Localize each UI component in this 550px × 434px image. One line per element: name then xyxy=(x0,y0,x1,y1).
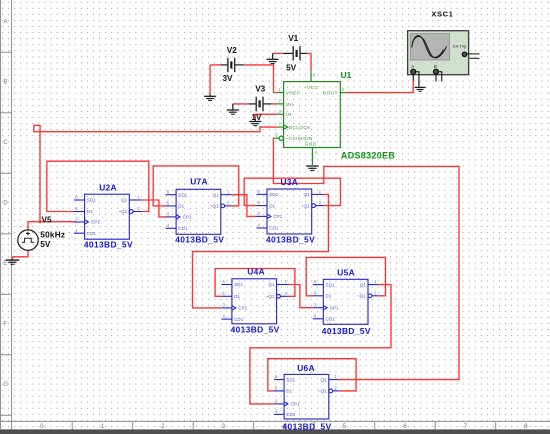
svg-text:6: 6 xyxy=(403,423,407,430)
svg-text:5V: 5V xyxy=(286,64,297,73)
svg-text:SD1: SD1 xyxy=(178,192,187,197)
svg-text:~Q1: ~Q1 xyxy=(357,294,366,299)
pin IN+ 2 xyxy=(278,103,284,105)
pin VREF 1 xyxy=(278,92,284,94)
wire: U2A feedback loop ~Q1 to D1 xyxy=(47,161,149,211)
svg-text:D1: D1 xyxy=(178,204,184,209)
op-amp U1 ADC ADS8320EB xyxy=(274,70,395,165)
wire: V5 to ground xyxy=(13,250,29,259)
svg-text:V1: V1 xyxy=(288,34,298,43)
svg-text:4013BD_5V: 4013BD_5V xyxy=(84,239,133,249)
wire: U5A feedback loop ~Q1 to D1 xyxy=(306,257,385,295)
svg-text:2: 2 xyxy=(161,423,165,430)
svg-text:Ext Trig: Ext Trig xyxy=(453,43,466,48)
svg-text:CP1: CP1 xyxy=(291,402,300,407)
svg-text:V5: V5 xyxy=(42,215,52,224)
bottom ruler numbers xyxy=(40,423,528,430)
flip-flop U6A xyxy=(274,363,339,431)
wire: U1 IN- to ground under 1V xyxy=(255,114,277,119)
svg-text:SD1: SD1 xyxy=(269,192,278,197)
svg-text:U7A: U7A xyxy=(190,177,208,187)
oscilloscope XSC1 xyxy=(408,9,480,87)
pin DOUT 6 xyxy=(340,92,345,94)
pin DCLOCK 7 xyxy=(278,126,284,128)
left ruler letters xyxy=(3,20,8,389)
battery V3 1V xyxy=(249,84,272,111)
svg-text:3V: 3V xyxy=(223,74,234,83)
flip-flop U5A xyxy=(313,268,378,336)
svg-text:7: 7 xyxy=(464,423,468,430)
battery V2 3V xyxy=(221,46,243,83)
flip-flop U3A xyxy=(257,177,324,244)
wire: V5 clock bus to U2A CP1 xyxy=(28,222,74,230)
svg-text:8: 8 xyxy=(524,423,528,430)
ground (U1 IN- tie) xyxy=(249,119,261,126)
svg-text:CD1: CD1 xyxy=(326,317,336,322)
svg-text:CD1: CD1 xyxy=(87,231,97,236)
wire: U3A feedback loop ~Q1 to D1 xyxy=(244,178,340,205)
svg-text:U2A: U2A xyxy=(99,183,117,193)
svg-text:A: A xyxy=(411,64,414,69)
screen waveforms xyxy=(412,36,444,58)
svg-text:0: 0 xyxy=(40,423,44,430)
svg-text:Q1: Q1 xyxy=(303,192,310,197)
svg-text:CP1: CP1 xyxy=(91,220,100,225)
svg-text:B: B xyxy=(434,64,437,69)
ground (V1 minus) xyxy=(267,53,279,63)
svg-text:Q1: Q1 xyxy=(213,192,220,197)
svg-text:5: 5 xyxy=(343,423,347,430)
svg-text:U3A: U3A xyxy=(281,177,299,187)
svg-text:IN+: IN+ xyxy=(286,102,295,108)
svg-text:D1: D1 xyxy=(326,294,332,299)
svg-text:A: A xyxy=(3,20,7,26)
wire: U7A Q1 to U3A CP1 xyxy=(231,195,256,217)
svg-text:~Q1: ~Q1 xyxy=(210,204,219,209)
svg-text:CD1: CD1 xyxy=(286,412,296,417)
svg-text:D1: D1 xyxy=(286,389,292,394)
flip-flop U7A xyxy=(166,177,232,245)
pin GND 4 xyxy=(311,148,313,166)
svg-text:~Q1: ~Q1 xyxy=(266,294,275,299)
svg-text:DOUT: DOUT xyxy=(323,90,338,96)
wire: clock bus riser to DCLOCK rail xyxy=(40,127,278,222)
wire: V2 ground drop xyxy=(209,65,211,94)
svg-text:5V: 5V xyxy=(40,240,51,249)
svg-text:SD1: SD1 xyxy=(87,198,96,203)
wire: U7A feedback loop ~Q1 to D1 xyxy=(153,166,239,206)
wire: U1 DOUT to scope channel A xyxy=(345,81,413,93)
svg-text:V3: V3 xyxy=(255,84,265,93)
svg-text:XSC1: XSC1 xyxy=(431,9,453,18)
wire: U4A feedback loop ~Q1 to D1 xyxy=(215,269,295,297)
svg-text:C: C xyxy=(3,140,8,146)
svg-text:D: D xyxy=(3,201,8,207)
svg-text:ADS8320EB: ADS8320EB xyxy=(341,151,395,161)
svg-text:4013BD_5V: 4013BD_5V xyxy=(283,421,332,431)
svg-text:F: F xyxy=(3,322,7,328)
svg-text:1: 1 xyxy=(101,423,105,430)
svg-text:CP1: CP1 xyxy=(330,305,339,310)
svg-text:CP1: CP1 xyxy=(273,214,282,219)
ground (V3 minus) xyxy=(227,104,239,114)
svg-text:Q1: Q1 xyxy=(360,282,367,287)
svg-text:CD1: CD1 xyxy=(234,317,244,322)
svg-text:4013BD_5V: 4013BD_5V xyxy=(266,234,315,244)
svg-text:U5A: U5A xyxy=(337,268,355,278)
pin IN- 3 xyxy=(278,113,284,115)
ground (scope A minus) xyxy=(415,87,426,91)
svg-text:U4A: U4A xyxy=(247,267,265,277)
svg-text:~CS/SHDN: ~CS/SHDN xyxy=(285,136,312,142)
ground (V5 minus) xyxy=(6,259,20,264)
node: junction V5/bus xyxy=(39,220,42,223)
svg-text:G: G xyxy=(3,382,8,388)
svg-text:50kHz: 50kHz xyxy=(40,231,65,240)
bottom window bar xyxy=(0,429,550,434)
svg-text:SD1: SD1 xyxy=(326,282,335,287)
svg-text:4013BD_5V: 4013BD_5V xyxy=(175,235,224,245)
svg-text:Q1: Q1 xyxy=(268,282,275,287)
node: bus end square marker xyxy=(34,125,40,131)
svg-text:VREF: VREF xyxy=(286,90,300,96)
svg-text:B: B xyxy=(3,80,7,86)
svg-text:CD1: CD1 xyxy=(178,226,188,231)
svg-text:GND: GND xyxy=(305,142,317,148)
svg-text:DCLOCK: DCLOCK xyxy=(289,125,312,131)
svg-text:SD1: SD1 xyxy=(234,282,243,287)
svg-text:~Q1: ~Q1 xyxy=(318,389,327,394)
wire: U2A Q1 to U7A CP1 xyxy=(142,200,166,217)
svg-text:D1: D1 xyxy=(87,209,93,214)
sheet border: left ruler strip xyxy=(0,0,12,429)
wire: V2 minus to ground xyxy=(210,64,221,66)
flip-flop U4A xyxy=(221,267,288,335)
svg-text:U1: U1 xyxy=(341,70,352,80)
wire: V1 plus to U1 +VCC xyxy=(307,53,311,70)
sheet border: bottom ruler strip xyxy=(0,421,550,429)
wire: V3 minus to ground xyxy=(233,103,249,105)
wire: U6A feedback loop ~Q1 to D1 xyxy=(268,359,356,391)
svg-text:SD1: SD1 xyxy=(286,377,295,382)
svg-text:U6A: U6A xyxy=(297,363,315,373)
pin +VCC 8 xyxy=(310,70,312,82)
pin ~CS/SHDN 5 xyxy=(274,137,279,139)
svg-text:Q1: Q1 xyxy=(121,198,128,203)
svg-text:V2: V2 xyxy=(227,46,237,55)
svg-text:~Q1: ~Q1 xyxy=(118,209,127,214)
svg-text:D1: D1 xyxy=(269,203,275,208)
svg-text:CP1: CP1 xyxy=(183,215,192,220)
svg-text:1V: 1V xyxy=(251,113,262,122)
svg-text:4013BD_5V: 4013BD_5V xyxy=(231,325,280,335)
wire: U4A Q1 to U5A CP1 xyxy=(289,285,313,308)
svg-text:4013BD_5V: 4013BD_5V xyxy=(322,326,371,336)
flip-flop U2A xyxy=(74,183,142,250)
wire: V2 plus to U1 VREF xyxy=(243,65,277,93)
svg-text:3: 3 xyxy=(222,423,226,430)
svg-text:~Q1: ~Q1 xyxy=(301,203,310,208)
wire: U3A Q1 to U4A CP1 xyxy=(193,194,329,308)
svg-text:D1: D1 xyxy=(234,294,240,299)
wire: V3 plus to U1 IN+ xyxy=(271,103,278,105)
ext trig terminal xyxy=(462,52,466,56)
svg-text:CD1: CD1 xyxy=(269,226,279,231)
wire: V1 minus to ground corner xyxy=(273,52,284,54)
wire: U6A Q1 to U1 ~CS/SHDN xyxy=(273,138,459,379)
svg-text:Q1: Q1 xyxy=(321,377,328,382)
battery V1 5V xyxy=(283,34,307,73)
wire: U5A Q1 to U6A CP1 xyxy=(250,285,391,404)
ground (U1 GND pin) xyxy=(306,166,318,170)
svg-text:CP1: CP1 xyxy=(238,306,247,311)
svg-text:E: E xyxy=(3,261,7,267)
svg-text:IN-: IN- xyxy=(286,112,293,118)
clock source V5 50kHz 5V xyxy=(18,215,65,250)
svg-text:+VCC: +VCC xyxy=(304,85,319,91)
ground (V2 minus) xyxy=(204,94,216,101)
